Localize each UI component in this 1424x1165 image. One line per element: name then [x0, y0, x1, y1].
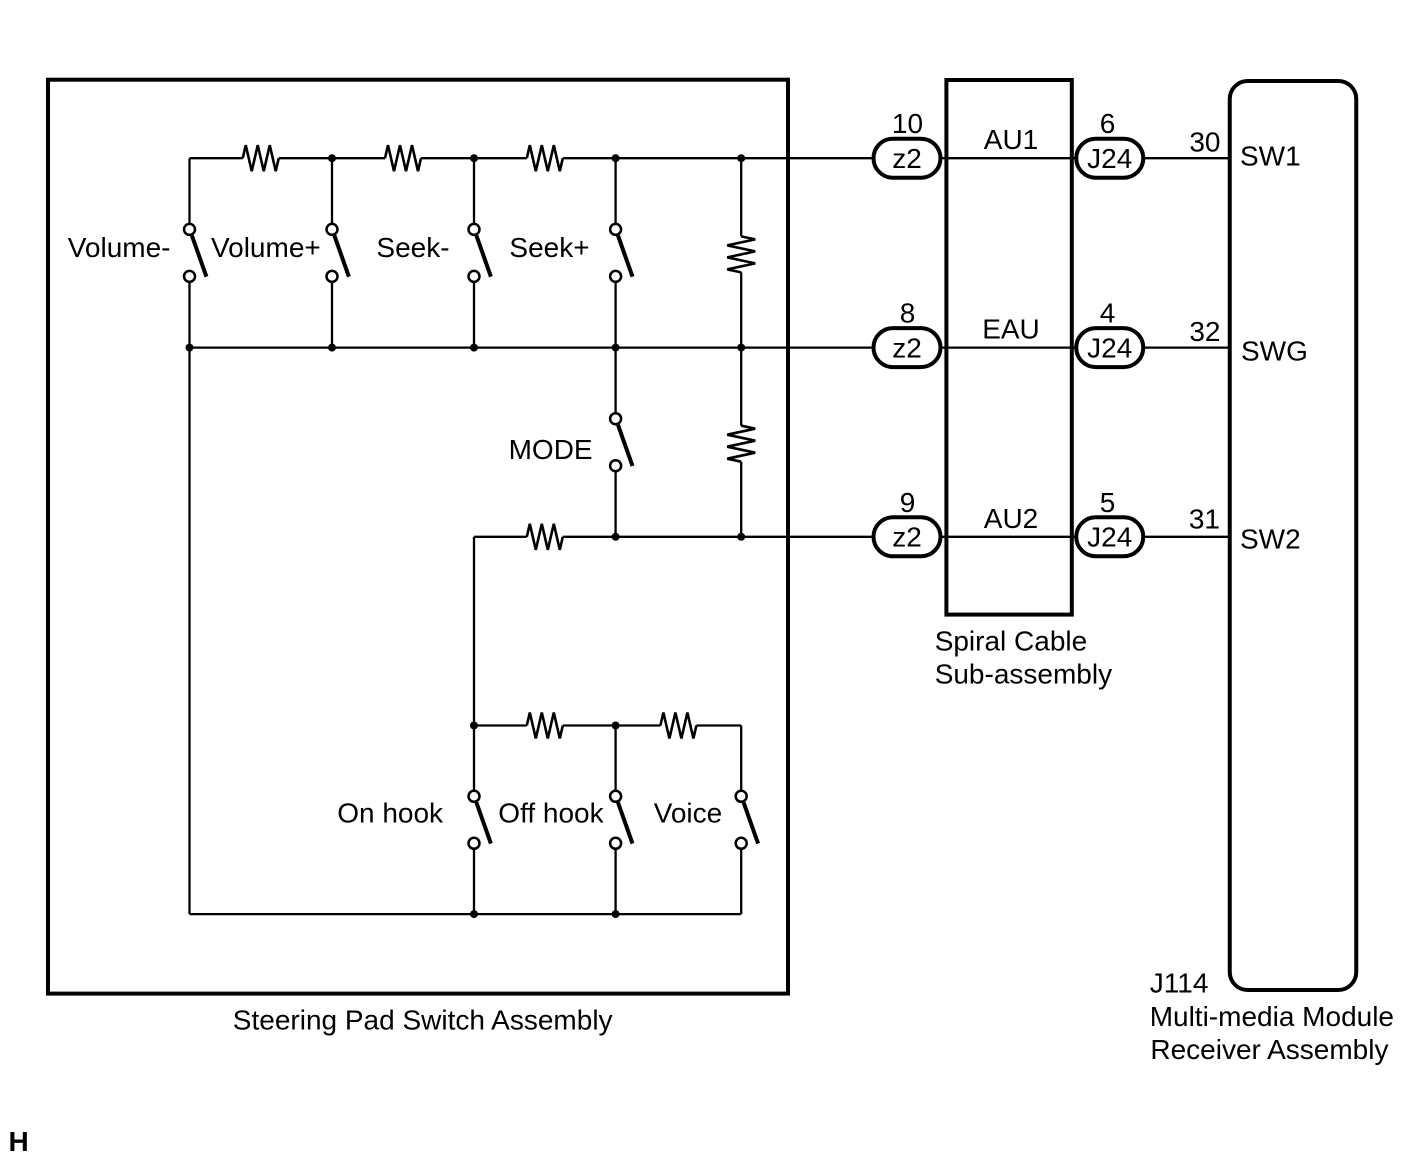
wire Volume+ upper lead: [331, 158, 333, 229]
wire AU2-rail to On hook drop: [473, 537, 475, 797]
svg-text:Receiver Assembly: Receiver Assembly: [1150, 1034, 1388, 1065]
wire resistor R5 upper lead: [740, 348, 742, 426]
wire hook rail seg b: [563, 724, 661, 726]
switch Voice: [736, 791, 758, 849]
wire rail AU2 seg a: [474, 536, 527, 538]
svg-text:SWG: SWG: [1241, 336, 1308, 367]
box Steering Pad Switch Assembly: [48, 80, 788, 994]
wire hook rail seg a: [474, 724, 527, 726]
wire Voice upper lead: [740, 726, 742, 797]
svg-text:Sub-assembly: Sub-assembly: [935, 659, 1112, 690]
svg-text:Volume-: Volume-: [68, 232, 171, 263]
resistor R6: [527, 524, 563, 550]
resistor R5 (vertical): [727, 426, 755, 462]
svg-text:6: 6: [1100, 108, 1116, 139]
resistor R7: [527, 713, 563, 739]
resistor R3: [527, 145, 563, 171]
svg-text:Volume+: Volume+: [211, 232, 321, 263]
svg-text:SW1: SW1: [1240, 140, 1301, 171]
wire rail AU2 seg b to receiver: [563, 536, 1229, 538]
connector J24 pin 5: [1076, 517, 1143, 556]
node hookrail-On hook: [470, 722, 478, 730]
svg-text:MODE: MODE: [509, 434, 593, 465]
node rail1-Seek-: [470, 154, 478, 162]
switch Volume-: [184, 224, 206, 282]
svg-text:AU1: AU1: [984, 124, 1038, 155]
switch Off hook: [610, 791, 632, 849]
wire hook rail seg c: [696, 724, 741, 726]
svg-text:Spiral Cable: Spiral Cable: [935, 626, 1088, 657]
connector z2 pin 10: [874, 139, 941, 178]
resistor R2: [385, 145, 421, 171]
node rail2-Seek-: [470, 344, 478, 352]
switch On hook: [469, 791, 491, 849]
wire rail AU1 seg b: [279, 157, 385, 159]
wire bottom return rail: [190, 913, 742, 915]
svg-text:z2: z2: [892, 332, 922, 363]
node rail2-Volume-: [186, 344, 194, 352]
connector J24 pin 6: [1076, 139, 1143, 178]
svg-text:Voice: Voice: [654, 797, 723, 828]
svg-text:J24: J24: [1087, 143, 1132, 174]
svg-text:z2: z2: [892, 522, 922, 553]
wire MODE upper lead: [614, 348, 616, 419]
wire Seek+ upper lead: [614, 158, 616, 229]
svg-text:5: 5: [1100, 487, 1116, 518]
wire Seek- upper lead: [473, 158, 475, 229]
node rail1-Seek+: [612, 154, 620, 162]
svg-text:J24: J24: [1087, 332, 1132, 363]
resistor R4 (vertical): [727, 236, 755, 272]
box Spiral Cable Sub-assembly: [946, 80, 1071, 615]
node rail3-R5: [737, 533, 745, 541]
node bottomrail-On hook: [470, 910, 478, 918]
node rail2-Seek+: [612, 344, 620, 352]
svg-text:J114: J114: [1150, 968, 1209, 999]
svg-text:AU2: AU2: [984, 503, 1038, 534]
resistor R8: [660, 713, 696, 739]
wire Volume+ lower lead: [331, 276, 333, 347]
wire MODE lower lead: [614, 466, 616, 537]
wire left return drop: [188, 348, 190, 915]
switch MODE: [610, 413, 632, 471]
box J114 Multi-media Module Receiver Assembly: [1230, 81, 1357, 990]
wire Volume- lower lead: [188, 276, 190, 347]
svg-text:H: H: [9, 1126, 29, 1157]
switch Seek-: [469, 224, 491, 282]
svg-text:Seek+: Seek+: [509, 232, 589, 263]
wire Volume- upper lead: [188, 158, 190, 229]
node rail2-R4: [737, 344, 745, 352]
wire rail AU1 seg d to receiver: [563, 157, 1229, 159]
wire Voice lower lead: [740, 843, 742, 914]
connector z2 pin 9: [874, 517, 941, 556]
svg-text:Seek-: Seek-: [376, 232, 449, 263]
svg-text:Off hook: Off hook: [498, 797, 604, 828]
svg-text:31: 31: [1189, 503, 1220, 534]
svg-text:4: 4: [1100, 297, 1116, 328]
switch Seek+: [610, 224, 632, 282]
wire On hook lower lead: [473, 843, 475, 914]
svg-text:9: 9: [900, 487, 916, 518]
svg-text:10: 10: [892, 108, 923, 139]
svg-text:30: 30: [1189, 127, 1220, 158]
svg-text:32: 32: [1189, 316, 1220, 347]
wire Off hook upper lead: [614, 726, 616, 797]
node rail1-Volume+: [328, 154, 336, 162]
svg-text:SW2: SW2: [1240, 523, 1301, 554]
resistor R1: [243, 145, 279, 171]
connector J24 pin 4: [1076, 328, 1143, 367]
svg-text:8: 8: [900, 297, 916, 328]
node rail2-Volume+: [328, 344, 336, 352]
wire Off hook lower lead: [614, 843, 616, 914]
svg-text:Steering Pad Switch Assembly: Steering Pad Switch Assembly: [233, 1005, 613, 1036]
wire Seek+ lower lead: [614, 276, 616, 347]
svg-text:Multi-media Module: Multi-media Module: [1150, 1001, 1394, 1032]
node bottomrail-Off hook: [612, 910, 620, 918]
wire resistor R4 lower lead: [740, 272, 742, 347]
svg-text:EAU: EAU: [982, 313, 1040, 344]
node rail1-R4: [737, 154, 745, 162]
switch Volume+: [327, 224, 349, 282]
wire rail EAU / SWG: [190, 346, 1230, 348]
wire resistor R5 lower lead: [740, 462, 742, 537]
wire rail AU1 seg a: [190, 157, 243, 159]
wire rail AU1 seg c: [421, 157, 527, 159]
node hookrail-Off hook: [612, 722, 620, 730]
svg-text:z2: z2: [892, 143, 922, 174]
svg-text:J24: J24: [1087, 522, 1132, 553]
svg-text:On hook: On hook: [337, 797, 444, 828]
wire Seek- lower lead: [473, 276, 475, 347]
connector z2 pin 8: [874, 328, 941, 367]
wire resistor R4 upper lead: [740, 158, 742, 236]
node rail3-MODE: [612, 533, 620, 541]
